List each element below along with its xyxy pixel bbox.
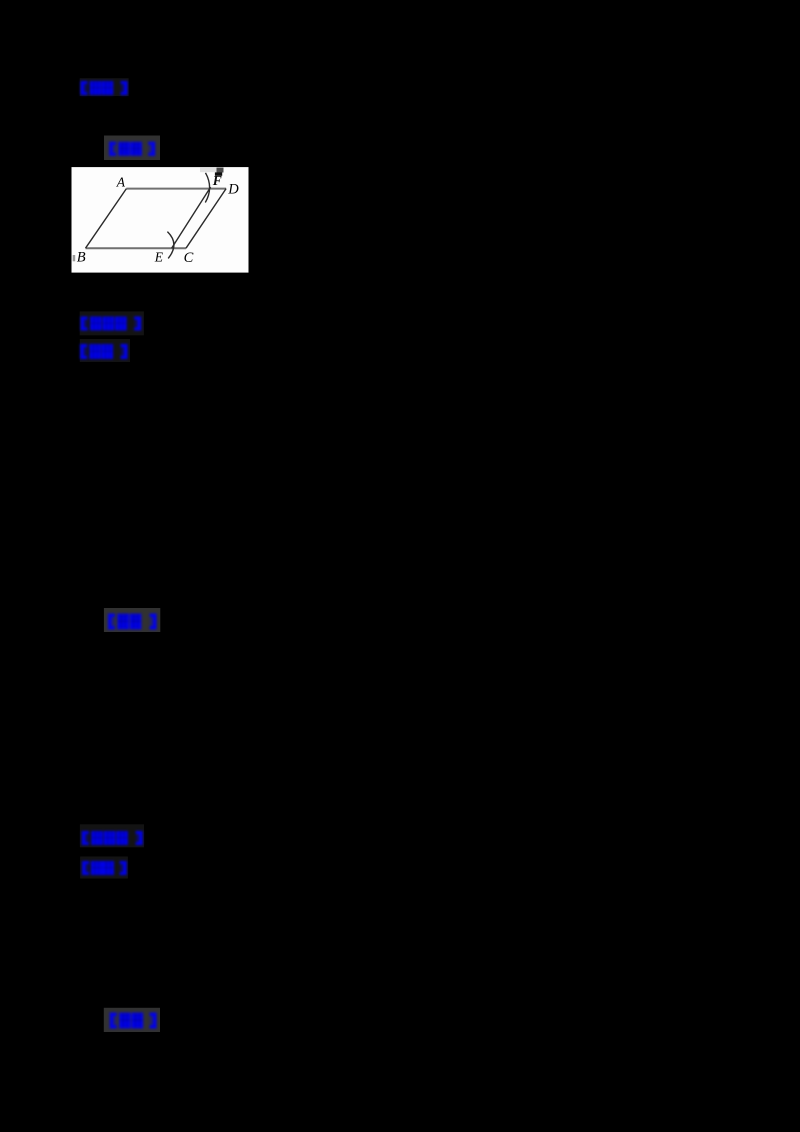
blue label 1 (answer tag) <box>81 81 128 95</box>
blue label 5 (analysis tag) <box>108 614 157 630</box>
blue label 4 (answer tag) <box>80 344 127 359</box>
halo ring label 4 <box>80 339 130 362</box>
side DC <box>186 189 226 249</box>
arc mark at F <box>205 173 209 203</box>
svg-text:A: A <box>116 175 126 190</box>
side BC <box>86 247 187 249</box>
blue label 2 (analysis tag) <box>109 142 155 156</box>
gray highlight box label 8 <box>104 1008 160 1032</box>
artifact black blob <box>215 172 222 175</box>
gray highlight box label 2 <box>104 136 160 161</box>
figure white background <box>72 167 249 273</box>
gray highlight box label 5 <box>104 608 160 632</box>
blue label 8 (analysis tag) <box>110 1013 157 1029</box>
artifact light gray rect <box>200 168 217 173</box>
svg-text:C: C <box>184 250 194 266</box>
blue label 7 (answer tag) <box>82 861 127 875</box>
svg-text:B: B <box>77 250 86 266</box>
side AD <box>126 188 226 190</box>
side AB <box>86 189 127 249</box>
svg-text:F: F <box>212 173 222 188</box>
blue label 6 (sub-answer tag, 3 chars) <box>82 831 143 845</box>
halo ring label 1 <box>80 78 129 96</box>
halo ring label 6 <box>80 824 144 847</box>
segment EF <box>172 187 211 248</box>
artifact left gray square <box>73 255 76 261</box>
blue label 3 (sub-answer tag, 3 chars) <box>81 317 142 331</box>
svg-text:E: E <box>154 250 164 265</box>
svg-text:D: D <box>227 182 239 198</box>
halo ring label 7 <box>80 857 128 879</box>
halo ring label 3 <box>80 311 144 335</box>
arc mark at E <box>167 232 174 259</box>
artifact dark gray square <box>217 168 224 173</box>
